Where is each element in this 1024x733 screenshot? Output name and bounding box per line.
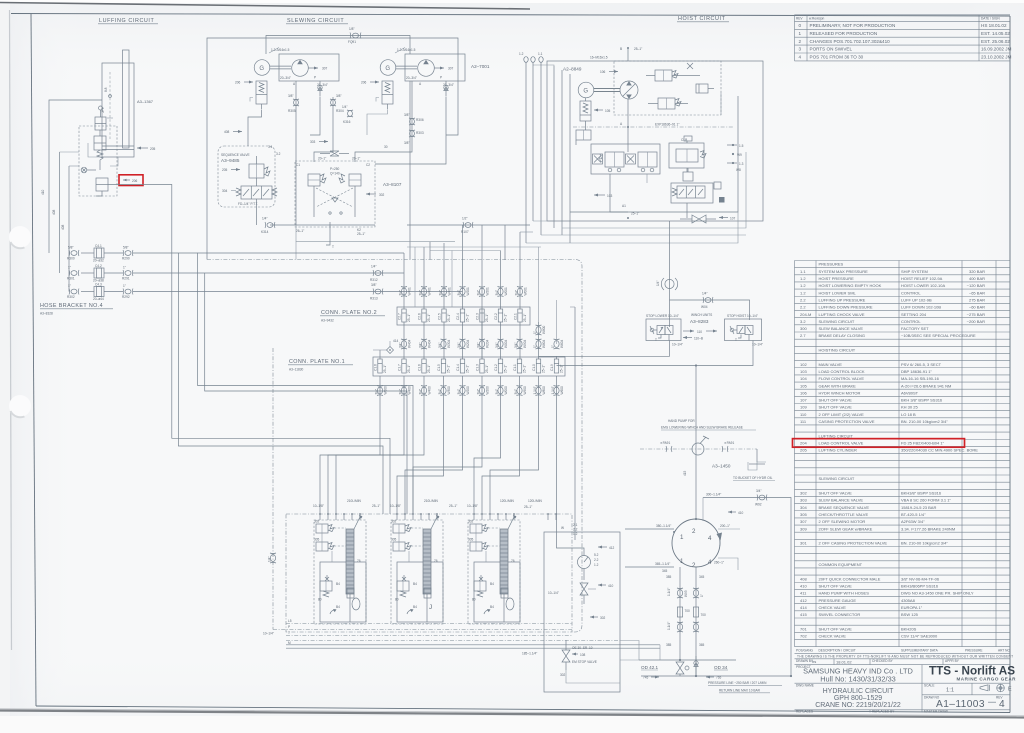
wire to valve bank xyxy=(328,376,404,514)
svg-text:CONN. PLATE NO.1: CONN. PLATE NO.1 xyxy=(289,359,345,365)
port xyxy=(396,513,398,520)
svg-text:FACTORY SET: FACTORY SET xyxy=(901,326,929,331)
svg-text:210L/MIN: 210L/MIN xyxy=(347,499,362,503)
svg-text:C1.9: C1.9 xyxy=(550,364,554,371)
wire column xyxy=(462,292,464,310)
accumulator xyxy=(696,84,714,93)
drawing frame border xyxy=(11,14,1010,17)
svg-text:25–1": 25–1" xyxy=(634,47,642,51)
svg-text:410: 410 xyxy=(608,584,614,588)
electric motor M1G xyxy=(254,60,270,76)
svg-text:POS 701 FROM 36 TO 30: POS 701 FROM 36 TO 30 xyxy=(810,55,864,60)
port w9 xyxy=(732,153,742,157)
svg-text:1.5: 1.5 xyxy=(739,144,744,148)
svg-text:R303: R303 xyxy=(416,131,424,135)
svg-text:18.01.02: 18.01.02 xyxy=(836,659,852,664)
svg-text:111: 111 xyxy=(800,419,807,424)
counterbalance valve 1 xyxy=(599,152,624,172)
port xyxy=(497,513,499,520)
wire xyxy=(519,322,521,359)
svg-text:C2.5: C2.5 xyxy=(438,313,442,320)
bottom supply line xyxy=(639,659,736,661)
wire xyxy=(59,152,61,273)
bottom nested wires xyxy=(541,234,746,236)
svg-text:3/4": 3/4" xyxy=(515,290,519,296)
hydraulic pump M2 xyxy=(418,60,444,77)
svg-text:120L/MIN: 120L/MIN xyxy=(528,499,543,503)
svg-text:W000: W000 xyxy=(504,386,508,395)
svg-text:3/8": 3/8" xyxy=(371,283,377,287)
wire right inner xyxy=(570,96,738,212)
svg-text:RELEASED FOR PRODUCTION: RELEASED FOR PRODUCTION xyxy=(810,31,878,36)
svg-text:R306: R306 xyxy=(416,118,424,122)
wire column xyxy=(443,243,445,309)
svg-text:10–1/4": 10–1/4" xyxy=(548,591,559,595)
svg-text:3/4": 3/4" xyxy=(438,342,442,348)
wire 538 upper xyxy=(538,247,540,322)
stop hoist valve xyxy=(725,319,762,342)
svg-text:385: 385 xyxy=(666,575,672,579)
hose coupling 3/4" xyxy=(457,386,470,396)
gauge shutoff xyxy=(580,583,596,604)
svg-text:1.1/4": 1.1/4" xyxy=(667,622,671,630)
port xyxy=(335,513,337,520)
svg-text:R304: R304 xyxy=(336,109,344,113)
wire to valve bank xyxy=(397,376,444,514)
punch hole xyxy=(9,226,31,248)
manifold line xyxy=(286,623,572,625)
svg-text:OE 30–SR–10: OE 30–SR–10 xyxy=(572,646,593,650)
svg-text:W400: W400 xyxy=(408,386,412,395)
measuring point xyxy=(81,167,96,173)
connector C4.2 xyxy=(93,264,104,283)
svg-text:5/8": 5/8" xyxy=(123,246,129,250)
svg-text:W200: W200 xyxy=(486,386,490,395)
svg-text:T: T xyxy=(332,245,334,249)
arrow 206 xyxy=(235,81,253,85)
svg-text:STOP HOIST 10–1/4": STOP HOIST 10–1/4" xyxy=(727,314,758,318)
plate connector C1.5 xyxy=(437,359,451,373)
svg-text:R300: R300 xyxy=(67,257,75,261)
svg-text:COMMON EQUIPMENT: COMMON EQUIPMENT xyxy=(819,562,863,567)
wire xyxy=(556,356,558,359)
svg-text:LUFTING CIRCUIT: LUFTING CIRCUIT xyxy=(819,433,854,438)
wire columns down xyxy=(429,242,431,260)
svg-text:1/4": 1/4" xyxy=(702,292,708,296)
valve bank boundary dashed xyxy=(286,514,572,632)
port xyxy=(359,513,361,520)
wires valve block xyxy=(610,174,628,212)
svg-text:EM STOP VALVE: EM STOP VALVE xyxy=(572,660,597,664)
pump enclosure xyxy=(405,54,465,81)
drain block O xyxy=(347,588,354,598)
plate connector C1.2 xyxy=(494,359,508,373)
port xyxy=(473,513,475,520)
svg-text:PSV 6/ 260-5, 3 SECT: PSV 6/ 260-5, 3 SECT xyxy=(901,362,942,367)
svg-text:16.09.2002 JM: 16.09.2002 JM xyxy=(981,47,1012,52)
svg-text:305: 305 xyxy=(391,538,397,542)
conn plate no.2 xyxy=(397,307,530,325)
wire xyxy=(462,225,464,292)
svg-text:3/4": 3/4" xyxy=(399,389,403,395)
svg-text:DESCRIPTION / CIRCUIT: DESCRIPTION / CIRCUIT xyxy=(819,649,856,653)
svg-text:109: 109 xyxy=(800,405,807,410)
conn plate no.1 xyxy=(373,357,565,376)
label Q xyxy=(506,598,514,610)
svg-text:STOP LOWER 10–1/4": STOP LOWER 10–1/4" xyxy=(646,314,679,318)
svg-text:SLEWING CIRCUIT: SLEWING CIRCUIT xyxy=(819,319,855,324)
hose coupling 3/4" xyxy=(419,339,432,349)
svg-text:LOAD CONTROL VALVE: LOAD CONTROL VALVE xyxy=(819,440,864,445)
labels OD xyxy=(641,665,728,670)
svg-text:E: E xyxy=(1008,687,1012,693)
wire xyxy=(81,252,94,254)
arrow 302b xyxy=(590,616,606,621)
wire down right xyxy=(409,81,411,260)
wire pump2 P xyxy=(375,97,446,164)
svg-text:~65 BAR: ~65 BAR xyxy=(969,290,985,295)
wire 1/2 R107 line xyxy=(407,224,530,226)
svg-text:23.10.2002 JM: 23.10.2002 JM xyxy=(981,55,1012,60)
hose coupling 3/4" xyxy=(514,339,527,349)
valve bank J enclosure xyxy=(391,520,443,624)
svg-text:T: T xyxy=(655,338,657,342)
svg-text:A3–1367: A3–1367 xyxy=(137,99,154,104)
svg-text:R301: R301 xyxy=(67,277,75,281)
hose coupling 1/4 K316 xyxy=(342,105,353,124)
svg-text:W204: W204 xyxy=(486,339,490,348)
svg-text:THE DRAWING IS THE PROPERTY OF: THE DRAWING IS THE PROPERTY OF TTS-NORLI… xyxy=(797,654,1013,658)
svg-text:EST. 14.05.02: EST. 14.05.02 xyxy=(981,31,1010,36)
svg-text:C1.3: C1.3 xyxy=(476,364,480,371)
svg-text:HYDRAULIC CIRCUIT: HYDRAULIC CIRCUIT xyxy=(823,688,895,695)
svg-text:REPLACES: REPLACES xyxy=(796,710,813,714)
svg-text:3/4": 3/4" xyxy=(457,342,461,348)
svg-text:2.2: 2.2 xyxy=(800,297,806,302)
hose coupling pair xyxy=(667,588,688,598)
wire xyxy=(321,533,323,542)
hose coupling 3/4" xyxy=(375,386,388,396)
port xyxy=(436,513,438,520)
port xyxy=(481,513,483,520)
wire to swivel xyxy=(695,366,697,520)
arrow 110-B xyxy=(683,336,703,341)
svg-text:20–3/4": 20–3/4" xyxy=(280,76,291,80)
second relief valve xyxy=(648,98,688,109)
svg-text:302: 302 xyxy=(391,520,397,524)
port xyxy=(513,513,515,520)
svg-text:408: 408 xyxy=(800,576,807,581)
wire xyxy=(331,551,333,562)
hose coupling 3/4" xyxy=(399,386,412,396)
svg-text:1": 1" xyxy=(533,345,537,348)
svg-text:HOIST PRESSURE: HOIST PRESSURE xyxy=(819,276,855,281)
drain block Q xyxy=(501,588,508,598)
svg-text:410: 410 xyxy=(738,511,744,515)
svg-text:25–1": 25–1" xyxy=(372,504,380,508)
svg-text:K316: K316 xyxy=(343,120,351,124)
hose coupling 1" xyxy=(533,339,546,349)
hose coupling 3/4" xyxy=(495,386,508,396)
wire xyxy=(256,199,258,225)
svg-text:701: 701 xyxy=(800,626,807,631)
svg-text:2.2: 2.2 xyxy=(800,305,806,310)
svg-text:2.1: 2.1 xyxy=(573,523,578,527)
svg-text:SHUT OFF VALVE: SHUT OFF VALVE xyxy=(819,398,853,403)
wire xyxy=(49,100,102,253)
wire xyxy=(81,272,94,274)
hose coupling R312 xyxy=(370,265,383,283)
svg-text:BKH 3/8" BSPP SS316: BKH 3/8" BSPP SS316 xyxy=(901,398,943,403)
svg-text:LO 18 B: LO 18 B xyxy=(901,412,916,417)
svg-text:1/4": 1/4" xyxy=(371,265,377,269)
dashed enclosure luffing valves xyxy=(79,126,117,196)
corner tick xyxy=(330,609,337,614)
svg-text:25–1": 25–1" xyxy=(427,314,431,322)
svg-text:3/4": 3/4" xyxy=(457,290,461,296)
plate connector C2.5 xyxy=(438,309,452,322)
svg-text:C1.2: C1.2 xyxy=(494,364,498,371)
wire pump2 A xyxy=(355,81,412,162)
relief valve 203 xyxy=(96,178,108,196)
svg-text:1": 1" xyxy=(68,284,71,288)
manifold line xyxy=(286,644,660,646)
port xyxy=(351,513,353,520)
svg-text:260–1": 260–1" xyxy=(714,561,724,565)
svg-text:C4.3: C4.3 xyxy=(95,283,102,287)
port xyxy=(428,513,430,520)
svg-text:A6V80ST: A6V80ST xyxy=(901,390,919,395)
shuttle square 1 xyxy=(593,154,603,164)
svg-text:3/8": 3/8" xyxy=(336,94,342,98)
svg-text:R302: R302 xyxy=(67,295,75,299)
svg-text:20–1": 20–1" xyxy=(352,157,360,161)
red highlight box load control valve row xyxy=(793,439,965,448)
svg-text:80: 80 xyxy=(395,598,399,602)
svg-text:C2: C2 xyxy=(366,163,370,167)
svg-text:Q=140: Q=140 xyxy=(330,172,340,176)
svg-text:P: P xyxy=(440,76,442,80)
svg-text:345: 345 xyxy=(662,569,668,573)
diamond junction xyxy=(373,339,399,354)
svg-text:1.2: 1.2 xyxy=(800,283,806,288)
svg-text:302: 302 xyxy=(560,673,566,677)
svg-text:CONTROL: CONTROL xyxy=(901,290,921,295)
svg-text:SEQUENCE VALVE: SEQUENCE VALVE xyxy=(221,153,250,157)
svg-text:302: 302 xyxy=(468,520,474,524)
svg-text:W04: W04 xyxy=(701,305,708,309)
svg-text:P: P xyxy=(288,625,290,629)
svg-text:A3–9432: A3–9432 xyxy=(321,319,334,323)
pilot lines xyxy=(488,527,500,529)
svg-text:W404: W404 xyxy=(408,339,412,348)
svg-text:106: 106 xyxy=(800,390,807,395)
svg-text:25–1": 25–1" xyxy=(407,365,411,373)
wire 300 right xyxy=(703,493,770,522)
svg-text:3.2: 3.2 xyxy=(800,319,806,324)
small valve xyxy=(683,168,693,181)
svg-text:B: B xyxy=(620,47,622,51)
svg-text:M: M xyxy=(288,641,291,645)
svg-text:W800: W800 xyxy=(542,325,546,334)
pilot valve O2 xyxy=(314,538,334,552)
svg-text:25–1": 25–1" xyxy=(466,365,470,373)
svg-text:REPLACED BY: REPLACED BY xyxy=(872,710,895,714)
corner tick xyxy=(484,609,491,614)
arrow 110 xyxy=(683,330,717,335)
wire xyxy=(557,532,585,556)
svg-text:T: T xyxy=(735,338,737,342)
wire column extra xyxy=(414,247,416,307)
lowering valve group xyxy=(671,183,713,203)
svg-text:205: 205 xyxy=(150,147,156,151)
plate connector C2.3 xyxy=(476,309,490,322)
wire 200 xyxy=(718,524,740,529)
hose coupling pair xyxy=(693,588,704,598)
svg-text:25–1": 25–1" xyxy=(631,212,639,216)
stop lower valve xyxy=(646,319,681,342)
connector C4.1 xyxy=(93,244,104,263)
wire xyxy=(531,57,535,221)
wire horizontal feeder xyxy=(430,250,501,252)
svg-text:Hull No: 1430/31/32/33: Hull No: 1430/31/32/33 xyxy=(820,675,896,684)
wire right drop xyxy=(770,498,791,677)
svg-text:VBA 8 SC 260 FORM 3.1 1": VBA 8 SC 260 FORM 3.1 1" xyxy=(901,498,951,503)
wire pump2 right xyxy=(446,54,458,135)
svg-text:G: G xyxy=(385,66,390,72)
svg-text:1.1/4": 1.1/4" xyxy=(667,588,671,596)
shut off valve 701 xyxy=(676,662,689,676)
svg-text:380–1.1/4": 380–1.1/4" xyxy=(656,524,671,528)
hose coupling R313 xyxy=(370,283,383,301)
svg-text:408: 408 xyxy=(224,130,230,134)
rotation arrow xyxy=(719,534,720,546)
hose coupling 1.1/4" xyxy=(533,386,546,396)
wire to valve bank xyxy=(320,376,380,514)
port xyxy=(412,513,414,520)
svg-text:W001: W001 xyxy=(504,287,508,296)
pilot valve Q1 xyxy=(468,520,488,534)
svg-text:2OFF SLEW GEAR w/BRAKE: 2OFF SLEW GEAR w/BRAKE xyxy=(819,526,873,531)
svg-text:1.3: 1.3 xyxy=(739,162,744,166)
svg-text:3/4": 3/4" xyxy=(399,342,403,348)
svg-text:3/4": 3/4" xyxy=(514,389,518,395)
sequence valve xyxy=(249,156,270,186)
wire pump1 out xyxy=(314,97,333,162)
svg-text:8.8: 8.8 xyxy=(104,87,108,92)
gauge panel box xyxy=(544,532,620,692)
svg-text:4: 4 xyxy=(708,535,712,542)
svg-text:EST. 25.06.02: EST. 25.06.02 xyxy=(981,39,1010,44)
svg-text:HS 18.01.02: HS 18.01.02 xyxy=(981,23,1007,28)
svg-text:FQ91: FQ91 xyxy=(348,40,356,44)
svg-text:107: 107 xyxy=(800,398,807,403)
brake valve hoist xyxy=(580,98,591,121)
svg-text:LUFFING UP PRESSURE: LUFFING UP PRESSURE xyxy=(819,297,866,302)
svg-text:W001: W001 xyxy=(524,287,528,296)
wire xyxy=(520,231,533,233)
svg-text:210L/MIN: 210L/MIN xyxy=(424,499,439,503)
svg-text:80: 80 xyxy=(472,598,476,602)
svg-text:1": 1" xyxy=(551,345,555,348)
hose coupling 1" xyxy=(533,325,546,335)
svg-text:W804: W804 xyxy=(542,339,546,348)
svg-text:R291: R291 xyxy=(122,277,130,281)
svg-text:302: 302 xyxy=(314,520,320,524)
check valve xyxy=(444,81,448,97)
svg-text:CHECKED BY: CHECKED BY xyxy=(872,659,894,663)
svg-text:PRESSURE: PRESSURE xyxy=(965,649,983,653)
hose coupling 3/4" xyxy=(457,287,470,297)
shaft xyxy=(594,88,620,90)
svg-text:LUFF UP 102-9B: LUFF UP 102-9B xyxy=(901,297,932,302)
svg-text:W204: W204 xyxy=(466,339,470,348)
svg-text:B4: B4 xyxy=(336,582,340,586)
svg-text:EMG LOWERING WINCH AND SLEW BR: EMG LOWERING WINCH AND SLEW BRAKE RELEAS… xyxy=(661,426,743,430)
wire xyxy=(296,225,455,242)
svg-text:1/4": 1/4" xyxy=(656,280,660,286)
valve bank Q enclosure xyxy=(468,520,520,624)
revision table xyxy=(795,15,1012,61)
arrow 412 xyxy=(598,546,615,551)
svg-text:206: 206 xyxy=(361,81,367,85)
svg-text:LUFFING DOWN PRESSURE: LUFFING DOWN PRESSURE xyxy=(819,305,873,310)
wire to valve bank xyxy=(490,376,539,514)
wire C4.2 to plate xyxy=(133,272,404,274)
svg-text:25–1": 25–1" xyxy=(449,504,457,508)
hose coupling R306 xyxy=(404,113,424,125)
svg-text:ART NO: ART NO xyxy=(998,649,1010,653)
svg-text:1: 1 xyxy=(680,558,684,565)
svg-text:30: 30 xyxy=(384,145,388,149)
svg-text:3/4": 3/4" xyxy=(439,290,443,296)
wire 556 upper xyxy=(556,300,558,344)
svg-text:BSW 125: BSW 125 xyxy=(901,612,919,617)
svg-text:1/8": 1/8" xyxy=(349,27,355,31)
bottom return line xyxy=(641,675,792,677)
swivel bottom wires xyxy=(680,567,696,676)
svg-text:25–1": 25–1" xyxy=(560,365,564,373)
hose coupling R304 xyxy=(330,94,344,113)
svg-text:DBP 18636-91 1": DBP 18636-91 1" xyxy=(901,369,933,374)
svg-text:C2.6: C2.6 xyxy=(418,313,422,320)
svg-text:OD 42.1: OD 42.1 xyxy=(641,665,659,670)
svg-text:OD 34: OD 34 xyxy=(714,665,728,670)
svg-text:108: 108 xyxy=(580,653,586,657)
svg-text:2 OFF CASING PROTECTION VALVE: 2 OFF CASING PROTECTION VALVE xyxy=(819,541,888,546)
pilot square xyxy=(714,182,721,189)
wire 365 xyxy=(625,562,674,567)
svg-text:1.1/4": 1.1/4" xyxy=(533,386,537,394)
hoist boundary box xyxy=(547,61,763,221)
pilot valve J2 xyxy=(391,538,411,552)
svg-text:A3–11830: A3–11830 xyxy=(289,368,304,372)
svg-text:C1.7: C1.7 xyxy=(398,364,402,371)
svg-text:B4: B4 xyxy=(336,605,340,609)
svg-text:MARINE CARGO GEAR: MARINE CARGO GEAR xyxy=(956,677,1016,682)
svg-text:T: T xyxy=(288,631,290,635)
hose coupling pair low xyxy=(693,622,699,632)
wire to valve bank xyxy=(556,376,558,532)
svg-text:C1.6: C1.6 xyxy=(418,364,422,371)
wire xyxy=(561,70,563,235)
wire xyxy=(574,532,576,540)
svg-text:W904: W904 xyxy=(523,339,527,348)
port xyxy=(489,513,491,520)
hand pump line xyxy=(640,448,757,450)
wire xyxy=(443,322,445,359)
svg-text:P: P xyxy=(314,76,316,80)
